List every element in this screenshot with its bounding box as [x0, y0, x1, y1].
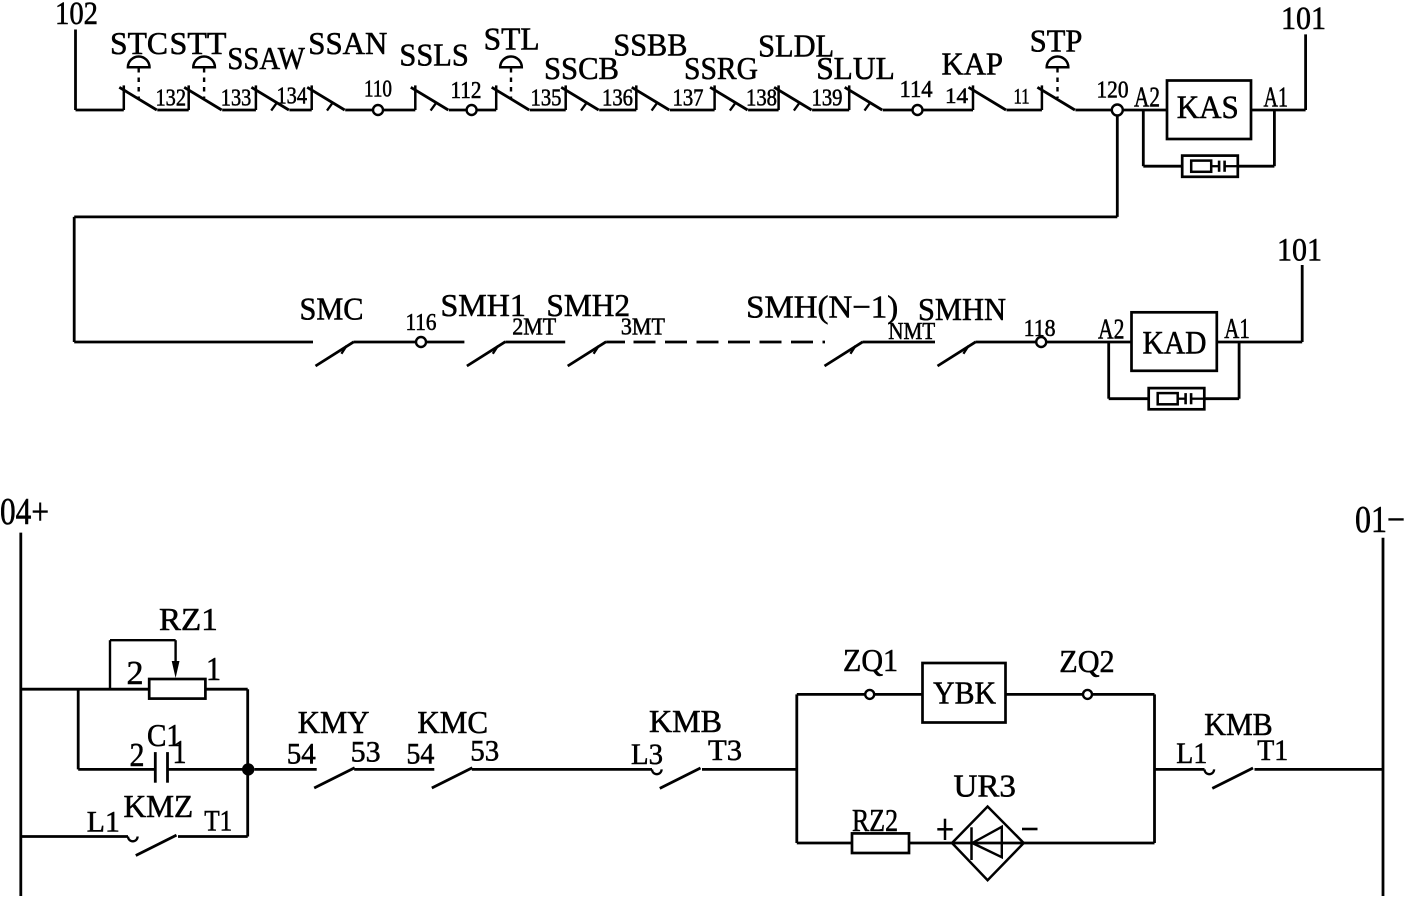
svg-text:SSCB: SSCB	[544, 50, 619, 86]
wire SMH(N-1) to SMHN	[863, 341, 935, 344]
svg-text:102: 102	[55, 0, 98, 32]
contactor contact KMZ	[128, 835, 177, 855]
relay coil KAD	[1132, 312, 1217, 371]
switch SSAN contact	[307, 85, 345, 110]
pushbutton STC contact	[119, 85, 157, 110]
wire KMY to KMC	[354, 768, 434, 771]
pushbutton STT contact	[184, 85, 222, 110]
wire to RZ2	[797, 842, 852, 845]
RC suppressor across KAS	[1143, 110, 1274, 177]
wire to node 118	[976, 341, 1036, 344]
svg-text:SSAN: SSAN	[308, 25, 387, 61]
wire ZQ2 to right connector	[1092, 693, 1155, 696]
svg-text:SMH(N−1): SMH(N−1)	[746, 289, 898, 325]
svg-text:54: 54	[287, 738, 316, 771]
wire from node 112	[477, 109, 497, 112]
contactor contact KMB L1-T1	[1205, 768, 1254, 788]
svg-text:L1: L1	[87, 806, 120, 839]
svg-text:STP: STP	[1030, 22, 1083, 58]
svg-text:135: 135	[531, 86, 562, 112]
svg-text:137: 137	[673, 86, 704, 112]
svg-text:T1: T1	[204, 804, 232, 837]
switch SMH2 contact	[568, 342, 607, 366]
svg-text:KAD: KAD	[1143, 325, 1207, 361]
pushbutton STL contact	[492, 85, 530, 110]
wire YBK to ZQ2	[1006, 693, 1084, 696]
svg-text:136: 136	[602, 86, 633, 112]
node 118	[1036, 337, 1046, 347]
svg-text:ZQ1: ZQ1	[843, 642, 898, 678]
svg-text:132: 132	[156, 86, 187, 112]
svg-text:RZ1: RZ1	[159, 601, 218, 637]
wire to node 116	[354, 341, 416, 344]
relay coil KAS	[1167, 81, 1251, 140]
wire junction to KMY	[254, 768, 316, 771]
junction node (dot)	[242, 763, 254, 775]
svg-text:STL: STL	[484, 21, 540, 57]
pushbutton STC head actuator (mushroom head)	[128, 57, 150, 99]
pushbutton STP head actuator (mushroom head)	[1047, 57, 1069, 99]
wire KMC to KMB	[472, 768, 652, 771]
svg-text:134: 134	[277, 84, 308, 110]
wire node 11	[1007, 109, 1042, 112]
wire KAS to 101	[1251, 109, 1306, 112]
svg-text:A2: A2	[1134, 83, 1160, 114]
switch SSBB contact	[632, 85, 670, 110]
wire to node 120	[1075, 109, 1111, 112]
wire parallel network right connector	[1153, 694, 1156, 843]
switch SSLS contact	[411, 85, 449, 110]
capacitor C1	[155, 752, 167, 783]
wire: right rail 01-	[1382, 538, 1385, 896]
svg-text:14: 14	[945, 83, 968, 108]
svg-text:53: 53	[351, 736, 381, 769]
wire to KMB L1	[1155, 768, 1205, 771]
svg-text:112: 112	[451, 78, 482, 104]
switch SSCB contact	[561, 85, 599, 110]
svg-text:11: 11	[1014, 84, 1030, 109]
switch SLDL contact	[774, 85, 812, 110]
polarity - label	[1022, 828, 1038, 831]
wire node 139	[812, 109, 849, 112]
relay contact KMY	[314, 768, 355, 788]
svg-text:01−: 01−	[1355, 499, 1405, 541]
wire dashed (omitted contacts)	[606, 341, 625, 344]
wire node 120 to KAS	[1123, 109, 1167, 112]
wire to node 114	[883, 109, 913, 112]
svg-text:SSBB: SSBB	[613, 26, 687, 62]
resistor RZ2	[852, 833, 909, 853]
wire left connector	[77, 689, 80, 769]
node 114	[913, 105, 923, 115]
svg-text:133: 133	[221, 86, 252, 112]
pushbutton STL head actuator (mushroom head)	[500, 57, 522, 98]
switch SSAW contact	[251, 85, 289, 110]
svg-text:101: 101	[1277, 233, 1322, 269]
switch SMHN contact	[938, 342, 977, 366]
svg-text:SSLS: SSLS	[399, 37, 468, 73]
svg-text:110: 110	[364, 77, 392, 103]
svg-text:STT: STT	[170, 25, 227, 61]
svg-text:139: 139	[812, 86, 843, 112]
wire C1 to junction	[168, 768, 246, 771]
wire node 135	[530, 109, 566, 112]
switch SLUL contact	[845, 85, 883, 110]
svg-text:KMZ: KMZ	[124, 788, 194, 824]
node 120	[1112, 105, 1123, 116]
switch SMH(N-1) contact	[825, 342, 864, 366]
svg-text:STC: STC	[110, 25, 168, 61]
svg-text:RZ2: RZ2	[852, 802, 898, 838]
svg-text:YBK: YBK	[933, 674, 996, 710]
node 110	[373, 105, 383, 115]
wire KAD to 101	[1217, 341, 1302, 344]
wire RZ1 to right connector	[205, 688, 247, 691]
svg-text:114: 114	[900, 77, 933, 103]
svg-text:L1: L1	[1176, 737, 1207, 770]
svg-text:UR3: UR3	[954, 768, 1016, 804]
svg-text:118: 118	[1024, 316, 1056, 342]
wire C1 branch left	[78, 768, 155, 771]
relay contact KMC	[432, 768, 473, 788]
brake coil YBK	[923, 663, 1006, 723]
svg-text:3MT: 3MT	[621, 315, 665, 341]
relay contact KAP	[969, 85, 1007, 110]
svg-text:KMY: KMY	[298, 704, 370, 740]
wire RZ2 through UR3 to right connector	[909, 842, 1155, 845]
wire to ZQ1	[797, 693, 865, 696]
wire node 120 down to second rung	[1116, 116, 1119, 217]
svg-text:T1: T1	[1257, 734, 1288, 767]
wire node 118 to KAD	[1046, 341, 1131, 344]
svg-text:120: 120	[1097, 78, 1129, 104]
wire parallel network left connector	[795, 694, 798, 843]
wire to node 112	[449, 109, 467, 112]
switch SSRG contact	[710, 85, 748, 110]
wire node 138	[748, 109, 779, 112]
wire KMB to right rail	[1255, 768, 1384, 771]
svg-text:SMC: SMC	[300, 291, 364, 327]
wire node 132	[157, 109, 188, 112]
node ZQ1	[865, 690, 874, 699]
wire from node 110	[383, 109, 415, 112]
wire ZQ1 to YBK	[874, 693, 922, 696]
svg-text:KAS: KAS	[1177, 90, 1239, 126]
wire node 14	[923, 109, 974, 112]
svg-text:53: 53	[470, 735, 499, 768]
switch SMC contact	[316, 342, 355, 366]
svg-text:SMHN: SMHN	[918, 291, 1006, 327]
switch SMH1 contact	[467, 342, 506, 366]
svg-text:04+: 04+	[0, 491, 49, 533]
wire SMH1 to SMH2	[505, 341, 565, 344]
RC suppressor across KAD	[1109, 342, 1239, 409]
svg-text:KAP: KAP	[942, 46, 1004, 82]
wire from node 116	[426, 341, 464, 344]
svg-text:SLUL: SLUL	[816, 50, 895, 86]
svg-text:1: 1	[173, 734, 187, 771]
node 116	[416, 337, 426, 347]
svg-text:SMH2: SMH2	[546, 287, 630, 323]
svg-text:101: 101	[1281, 1, 1326, 37]
svg-text:1: 1	[206, 651, 221, 688]
svg-text:SSRG: SSRG	[684, 50, 758, 86]
wire KMZ to right connector	[178, 835, 248, 838]
wire node 134	[289, 109, 311, 112]
wire KMB to parallel network	[702, 768, 797, 771]
svg-text:2: 2	[127, 655, 144, 692]
wire node 137	[670, 109, 715, 112]
pushbutton STT head actuator (mushroom head)	[193, 57, 215, 99]
svg-text:SSAW: SSAW	[227, 40, 305, 76]
svg-text:ZQ2: ZQ2	[1059, 643, 1114, 679]
svg-text:L3: L3	[631, 738, 663, 771]
wire to node 110	[345, 109, 373, 112]
wire node 133	[222, 109, 256, 112]
wire: left rail from 102	[74, 30, 77, 111]
pushbutton STP contact	[1037, 85, 1075, 110]
wire rail to KMZ	[21, 835, 128, 838]
wire: left rail 04+	[19, 533, 22, 896]
contactor contact KMB L3-T3	[652, 768, 701, 788]
polarity + label	[937, 828, 952, 831]
svg-text:116: 116	[406, 310, 437, 336]
wire right connector	[246, 689, 249, 836]
rectifier UR3	[952, 807, 1024, 881]
svg-text:138: 138	[746, 86, 777, 112]
wire rail to RZ1	[21, 688, 149, 691]
svg-text:A1: A1	[1224, 314, 1250, 345]
node 112	[467, 105, 477, 115]
svg-text:A2: A2	[1098, 314, 1125, 345]
wire node 136	[599, 109, 636, 112]
svg-text:54: 54	[406, 737, 434, 770]
svg-text:2: 2	[130, 737, 145, 774]
svg-text:T3: T3	[708, 734, 742, 767]
resistor RZ1 (rheostat)	[110, 640, 205, 698]
node ZQ2	[1083, 690, 1092, 699]
